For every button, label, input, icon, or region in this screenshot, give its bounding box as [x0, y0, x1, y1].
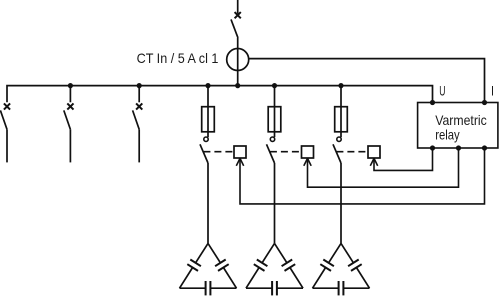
wire feeder 2 outgoing	[69, 129, 71, 162]
node bus feeder 2	[68, 83, 73, 88]
pin U terminal	[430, 100, 435, 105]
capacitor bank 1 delta right side	[208, 243, 237, 288]
contactor K2 coil box	[302, 146, 314, 158]
disconnect X mark feeder 2	[67, 103, 73, 109]
capacitor bank 3 delta left side	[313, 243, 342, 288]
contactor K1 coil box	[234, 146, 246, 158]
wire bus to fuse F2	[274, 86, 276, 138]
switch blade incoming breaker	[231, 19, 238, 38]
switch blade feeder 1	[0, 110, 7, 129]
wire bus to feeder 2 switch	[69, 86, 71, 103]
pin relay output 2	[456, 145, 461, 150]
node bus capacitor branch 2	[272, 83, 277, 88]
pin relay output 3	[482, 145, 487, 150]
disconnect X mark incoming	[235, 12, 241, 18]
contactor K2 fixed contact hook	[270, 137, 274, 141]
contactor K3 actuator dashed link	[336, 151, 367, 153]
wire bus to fuse F3	[340, 86, 342, 138]
capacitor bank 2 bottom capacitor plates	[272, 281, 277, 295]
svg-text:CT In / 5 A cl 1: CT In / 5 A cl 1	[137, 50, 219, 66]
capacitor bank 3 left capacitor plates	[320, 260, 334, 271]
wire relay output 2 to contactor K2 coil	[308, 148, 459, 187]
capacitor bank 3 delta right side	[341, 243, 370, 288]
switch blade feeder 3	[133, 110, 140, 129]
arrowhead into coil box K2	[304, 158, 311, 165]
wire contactor K2 to capacitor bank	[274, 163, 276, 243]
node bus CT drop	[235, 83, 240, 88]
node bus capacitor branch 3	[338, 83, 343, 88]
pin relay output 1	[430, 145, 435, 150]
wire CT secondary to relay I input	[249, 59, 485, 103]
contactor K3 fixed contact hook	[337, 137, 341, 141]
wire bus to feeder 3 switch	[138, 86, 140, 103]
contactor K2 blade	[267, 144, 275, 163]
fuse F1	[202, 107, 215, 132]
wire bus to fuse F1	[207, 86, 209, 138]
capacitor bank 2 delta right side	[275, 243, 304, 288]
node bus feeder 3	[137, 83, 142, 88]
arrowhead into coil box K1	[236, 158, 243, 165]
arrowhead into coil box K3	[370, 158, 377, 165]
svg-text:I: I	[491, 83, 494, 99]
svg-text:relay: relay	[435, 127, 460, 143]
contactor K1 fixed contact hook	[204, 137, 208, 141]
capacitor bank 1 right capacitor plates	[215, 260, 229, 271]
capacitor bank 2 delta left side	[246, 243, 275, 288]
switch blade feeder 2	[64, 110, 71, 129]
capacitor bank 3 delta bottom side	[313, 287, 370, 289]
wire contactor K1 to capacitor bank	[207, 163, 209, 243]
capacitor bank 2 delta bottom side	[246, 287, 303, 289]
capacitor bank 1 delta left side	[180, 243, 209, 288]
contactor K1 blade	[200, 144, 208, 163]
capacitor bank 1 delta bottom side	[180, 287, 237, 289]
capacitor bank 1 bottom capacitor plates	[206, 281, 211, 295]
fuse F3	[335, 107, 348, 132]
current transformer CT circle	[227, 49, 249, 71]
bus bar with U tap	[7, 86, 433, 103]
node bus capacitor branch 1	[205, 83, 210, 88]
wire feeder 3 outgoing	[138, 129, 140, 162]
disconnect X mark feeder 3	[136, 103, 142, 109]
capacitor bank 2 right capacitor plates	[282, 260, 296, 271]
capacitor bank 2 left capacitor plates	[254, 260, 268, 271]
disconnect X mark feeder 1	[4, 103, 10, 109]
pin I terminal	[482, 100, 487, 105]
wire relay output 1 to contactor K3 coil	[374, 148, 433, 170]
svg-text:U: U	[439, 83, 445, 99]
wire feeder 1 outgoing	[6, 129, 8, 162]
contactor K3 coil box	[368, 146, 380, 158]
contactor K2 actuator dashed link	[270, 151, 301, 153]
capacitor bank 3 right capacitor plates	[348, 260, 362, 271]
capacitor bank 3 bottom capacitor plates	[339, 281, 344, 295]
wire relay output 3 to contactor K1 coil	[240, 148, 485, 204]
wire breaker to bus through CT	[237, 38, 239, 86]
wire contactor K3 to capacitor bank	[340, 163, 342, 243]
varmetric relay box	[418, 103, 498, 149]
contactor K1 actuator dashed link	[203, 151, 233, 153]
wire incoming supply drop	[237, 0, 239, 14]
contactor K3 blade	[333, 144, 341, 163]
capacitor bank 1 left capacitor plates	[187, 260, 201, 271]
fuse F2	[268, 107, 281, 132]
